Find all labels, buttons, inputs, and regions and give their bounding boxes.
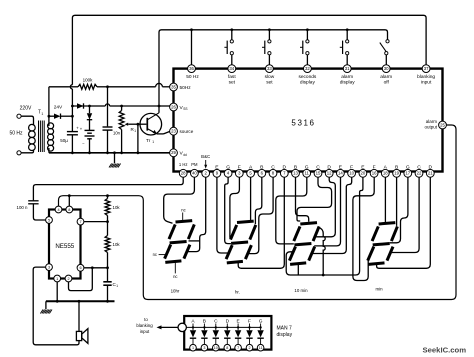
svg-text:50 Hz: 50 Hz xyxy=(186,74,199,80)
IC top pins 36 34 33 32 31 30 37 xyxy=(188,65,430,73)
wire E to hr digit xyxy=(217,177,228,253)
svg-text:37: 37 xyxy=(424,66,429,71)
terminal 220V top xyxy=(17,114,21,118)
push-button switch S4 alarm display xyxy=(340,30,349,65)
svg-text:19: 19 xyxy=(394,171,399,176)
wire D1 to V+ node xyxy=(61,115,74,118)
svg-text:33: 33 xyxy=(267,66,272,71)
label hr xyxy=(235,290,240,295)
wire B to hr digit xyxy=(255,177,261,224)
label 1Hz xyxy=(179,162,188,167)
label alarm off xyxy=(380,74,392,86)
MAN7 segment diodes xyxy=(186,319,264,352)
IC bottom pins row xyxy=(179,165,434,178)
battery BT1 xyxy=(80,119,95,154)
IC NE555 body xyxy=(49,210,81,279)
svg-text:B&C: B&C xyxy=(201,154,210,159)
watermark SeekIC.com xyxy=(423,345,467,354)
capacitor 100n xyxy=(17,201,39,210)
resistor 10k lower xyxy=(105,236,120,253)
resistor R1 xyxy=(119,106,139,154)
svg-text:30: 30 xyxy=(384,66,389,71)
wire G to hr digit xyxy=(225,177,231,244)
wire D to min digit xyxy=(377,177,431,268)
wire PM to F segment xyxy=(164,177,195,223)
label nc bottom xyxy=(173,262,177,279)
wire R1 wiper divider xyxy=(137,124,140,154)
svg-text:display: display xyxy=(277,332,293,338)
loudspeaker LS1 xyxy=(76,329,88,344)
svg-text:SeekIC.com: SeekIC.com xyxy=(423,345,467,354)
svg-text:20: 20 xyxy=(361,171,366,176)
svg-text:fast: fast xyxy=(228,74,236,80)
svg-text:28: 28 xyxy=(181,171,186,176)
svg-text:18: 18 xyxy=(383,171,388,176)
wire C to min digit xyxy=(390,177,419,253)
wire F to 10min digit xyxy=(312,177,352,254)
wire 10n to Vdd rail xyxy=(106,130,109,154)
push-button switch S1 fast set xyxy=(224,30,233,65)
svg-text:MAN 7: MAN 7 xyxy=(277,326,293,332)
IC pin 29 Vdd xyxy=(170,149,187,157)
svg-text:10k: 10k xyxy=(113,205,121,210)
svg-text:50Hz: 50Hz xyxy=(180,85,192,91)
svg-text:50µ: 50µ xyxy=(60,138,68,143)
wire emitter to source pin xyxy=(157,131,170,134)
svg-text:40: 40 xyxy=(192,171,197,176)
wire B to min digit xyxy=(396,177,398,226)
label 220V xyxy=(20,106,32,112)
capacitor 50u xyxy=(60,125,79,143)
NE555 pin 7 xyxy=(77,218,84,225)
transistor Tr1 xyxy=(140,113,162,144)
wire 100n to pin5 xyxy=(33,204,45,220)
svg-text:1: 1 xyxy=(192,346,194,350)
label min xyxy=(375,287,383,292)
svg-text:1: 1 xyxy=(41,112,43,116)
svg-text:25: 25 xyxy=(440,122,445,127)
svg-text:12: 12 xyxy=(327,171,332,176)
diode D3 xyxy=(87,106,92,120)
wire base lead xyxy=(138,123,147,125)
wire primary bottom xyxy=(21,150,33,153)
wire E to 10min digit xyxy=(314,177,340,246)
label 10hr xyxy=(171,289,180,294)
display digit 10min xyxy=(289,223,319,265)
svg-text:22: 22 xyxy=(417,171,422,176)
svg-text:alarm: alarm xyxy=(426,119,438,124)
svg-text:slow: slow xyxy=(265,74,275,80)
svg-text:B: B xyxy=(395,165,398,171)
terminal 220V bottom xyxy=(17,151,21,155)
svg-text:display: display xyxy=(340,79,356,85)
svg-text:output: output xyxy=(424,125,437,130)
svg-text:F: F xyxy=(373,165,376,171)
svg-text:35: 35 xyxy=(171,84,176,89)
IC pin 35 50Hz xyxy=(170,83,192,91)
label slow set xyxy=(265,74,275,86)
wire 1Hz to 100n xyxy=(33,177,183,200)
svg-text:B: B xyxy=(260,165,263,171)
svg-text:3: 3 xyxy=(203,346,205,350)
toggle switch S5 alarm off xyxy=(380,40,389,65)
svg-text:seconds: seconds xyxy=(298,74,316,80)
svg-text:set: set xyxy=(229,79,236,85)
label nc top xyxy=(181,207,185,220)
svg-text:C: C xyxy=(271,165,275,171)
svg-text:blanking: blanking xyxy=(417,74,435,80)
svg-text:6: 6 xyxy=(79,266,81,270)
svg-text:C: C xyxy=(417,165,421,171)
IC pin 23 source xyxy=(170,127,194,135)
svg-text:10n: 10n xyxy=(113,131,121,136)
svg-text:source: source xyxy=(180,129,194,134)
diode D2 xyxy=(77,103,84,108)
svg-text:D: D xyxy=(283,165,287,171)
svg-text:7: 7 xyxy=(79,220,81,224)
svg-text:21: 21 xyxy=(428,171,433,176)
wire V+ to Vss pin xyxy=(72,104,169,108)
push-button switch S2 slow set xyxy=(262,30,271,65)
resistor 100k xyxy=(78,78,97,90)
display digit hr xyxy=(226,221,256,263)
wire to blanking input arrow xyxy=(136,317,178,334)
label 24V xyxy=(54,105,63,111)
NE555 pin 5 xyxy=(46,217,53,224)
svg-text:10 min: 10 min xyxy=(294,288,308,293)
label fast set xyxy=(228,74,236,86)
NE555 pin 2 xyxy=(65,275,72,282)
svg-text:11: 11 xyxy=(259,346,263,350)
svg-text:31: 31 xyxy=(345,66,350,71)
transformer T1 xyxy=(29,110,54,153)
svg-text:alarm: alarm xyxy=(380,74,392,80)
svg-text:14: 14 xyxy=(338,171,343,176)
svg-text:15: 15 xyxy=(316,171,321,176)
svg-text:4: 4 xyxy=(57,208,59,212)
svg-text:input: input xyxy=(140,329,150,334)
wire B to 10min digit xyxy=(296,177,309,222)
svg-text:1: 1 xyxy=(152,140,154,144)
svg-text:3: 3 xyxy=(48,266,50,270)
label blanking input xyxy=(417,74,435,86)
wire F to hr digit xyxy=(230,177,240,238)
diode D1 xyxy=(54,114,61,119)
svg-text:32: 32 xyxy=(305,66,310,71)
wire pin7 xyxy=(84,221,107,223)
wire NE555 ground rail xyxy=(46,300,115,302)
svg-text:24V: 24V xyxy=(54,105,63,111)
svg-text:to: to xyxy=(144,317,148,322)
svg-text:11: 11 xyxy=(304,171,309,176)
label seconds display xyxy=(298,74,316,86)
svg-text:2: 2 xyxy=(248,346,250,350)
svg-text:100 n: 100 n xyxy=(17,205,29,210)
svg-text:1 Hz: 1 Hz xyxy=(179,162,188,167)
svg-text:2: 2 xyxy=(67,277,69,281)
svg-text:blanking: blanking xyxy=(136,323,153,328)
display digit 10hr xyxy=(165,221,195,263)
svg-text:F: F xyxy=(350,165,353,171)
svg-text:16: 16 xyxy=(372,171,377,176)
svg-text:29: 29 xyxy=(171,150,176,155)
wire 10k to 10k xyxy=(106,216,109,236)
wire pin3 to speaker xyxy=(33,267,79,345)
wire switch common rail xyxy=(159,28,388,106)
wire G to min digit xyxy=(390,177,408,243)
svg-text:nc: nc xyxy=(153,252,157,257)
svg-text:min: min xyxy=(375,287,383,292)
wire C to hr digit xyxy=(247,177,274,254)
wire primary top xyxy=(21,116,33,125)
wire collector xyxy=(158,106,160,113)
svg-text:G: G xyxy=(406,165,410,171)
wire pin36 riser xyxy=(191,30,193,65)
wire 100k to pin35 xyxy=(97,83,170,88)
svg-text:50 Hz: 50 Hz xyxy=(9,131,23,137)
wire F to min digit xyxy=(353,177,374,281)
NE555 pin 1 xyxy=(54,275,61,282)
svg-text:Tr: Tr xyxy=(146,138,151,144)
svg-text:D: D xyxy=(327,165,331,171)
wire 50u to Vdd rail xyxy=(71,135,74,154)
wire pin2 to pin6 net xyxy=(69,266,94,290)
NE555 pin 3 xyxy=(46,264,53,271)
wire C1 to ground rail xyxy=(106,285,109,302)
svg-text:100k: 100k xyxy=(83,78,94,83)
svg-text:10hr: 10hr xyxy=(171,289,180,294)
wire secondary top to 50Hz line xyxy=(48,87,50,126)
IC pin 25 alarm output xyxy=(424,119,446,130)
wire V+ top rail to blanking input xyxy=(70,15,426,103)
svg-text:alarm: alarm xyxy=(341,74,353,80)
node common anode xyxy=(178,323,186,331)
svg-text:G: G xyxy=(305,165,309,171)
svg-text:set: set xyxy=(266,79,273,85)
label nc left xyxy=(153,252,168,257)
svg-text:1: 1 xyxy=(134,129,136,133)
svg-text:34: 34 xyxy=(229,66,234,71)
label 50 Hz pin36 xyxy=(186,74,199,80)
NE555 pin 6 xyxy=(77,264,84,271)
resistor 10k upper xyxy=(105,199,120,216)
wire A to hr digit xyxy=(250,177,252,221)
svg-text:17: 17 xyxy=(405,171,410,176)
svg-text:1: 1 xyxy=(116,284,118,288)
svg-text:hr.: hr. xyxy=(235,290,240,295)
svg-text:10k: 10k xyxy=(113,242,121,247)
svg-text:nc: nc xyxy=(181,207,185,212)
svg-text:C: C xyxy=(316,165,320,171)
wire pin6 xyxy=(84,267,107,269)
wire D to 10min digit xyxy=(314,177,335,237)
svg-text:SS: SS xyxy=(183,107,187,111)
svg-text:display: display xyxy=(300,79,316,85)
svg-text:nc: nc xyxy=(173,274,177,279)
wire C to 10min digit xyxy=(297,177,332,221)
svg-text:10: 10 xyxy=(214,346,218,350)
svg-text:input: input xyxy=(421,79,432,85)
svg-text:G: G xyxy=(226,165,230,171)
svg-text:NE555: NE555 xyxy=(55,243,74,250)
wire speaker to ground rail xyxy=(78,300,81,331)
capacitor 10n xyxy=(103,127,121,136)
label B&C with arrow xyxy=(201,154,210,169)
IC 5316 body xyxy=(174,69,443,172)
wire secondary bottom to Vdd rail xyxy=(48,148,50,153)
NE555 pin 4 xyxy=(55,206,62,213)
wire 50Hz feed xyxy=(49,86,78,88)
svg-text:8: 8 xyxy=(68,208,70,212)
push-button switch S3 seconds display xyxy=(300,30,309,65)
label 10 min xyxy=(294,288,308,293)
label 50 Hz xyxy=(9,131,23,137)
label alarm display xyxy=(340,74,356,86)
label PM xyxy=(191,162,198,167)
wire E to min digit xyxy=(286,177,363,275)
wire 10k to C1 xyxy=(106,253,109,282)
wire 50Hz to 10n xyxy=(107,87,109,127)
NE555 pin 8 xyxy=(66,206,73,213)
svg-text:26: 26 xyxy=(171,104,176,109)
IC pin 26 Vss xyxy=(170,103,188,111)
wire G to 10min digit xyxy=(276,177,307,244)
svg-text:off: off xyxy=(384,79,390,85)
wire A to min digit xyxy=(384,177,386,222)
svg-text:23: 23 xyxy=(171,129,176,134)
display digit min xyxy=(368,223,398,265)
ground PSU xyxy=(109,151,121,167)
ground NE555 xyxy=(40,301,52,313)
svg-text:13: 13 xyxy=(293,171,298,176)
wire secondary to D1 xyxy=(48,115,55,118)
wire Vdd rail xyxy=(49,152,170,154)
wire pin1 to ground rail xyxy=(56,282,59,303)
wire V+ node vertical xyxy=(71,104,74,132)
wire NE555 pin8 riser xyxy=(68,194,71,206)
wire alarm output loop xyxy=(59,125,457,300)
capacitor C1 xyxy=(103,282,118,288)
svg-text:B: B xyxy=(294,165,297,171)
svg-text:7: 7 xyxy=(237,346,239,350)
display MAN7 body xyxy=(184,316,292,350)
svg-text:dd: dd xyxy=(183,153,187,157)
wire B&C to digit1 xyxy=(186,177,206,252)
svg-text:220V: 220V xyxy=(20,106,32,112)
wire 10min segment bracket xyxy=(320,228,326,277)
svg-text:5: 5 xyxy=(48,218,50,222)
svg-text:36: 36 xyxy=(189,66,194,71)
svg-text:1: 1 xyxy=(56,277,58,281)
svg-text:10: 10 xyxy=(349,171,354,176)
svg-text:8: 8 xyxy=(226,346,228,350)
svg-text:F: F xyxy=(238,165,241,171)
wire D to hr digit xyxy=(238,177,284,268)
wire supply to 10k xyxy=(106,194,109,198)
svg-text:D: D xyxy=(429,165,433,171)
svg-text:5316: 5316 xyxy=(291,119,315,128)
svg-text:PM: PM xyxy=(191,162,198,167)
wire 10min D return xyxy=(297,264,299,275)
